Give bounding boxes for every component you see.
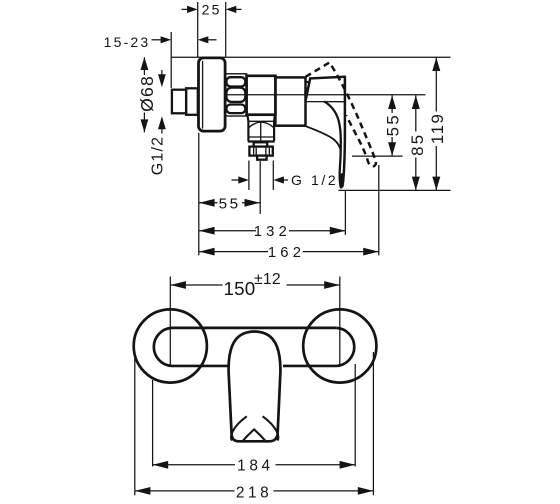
svg-text:Ø68: Ø68 bbox=[137, 75, 157, 112]
svg-text:85: 85 bbox=[408, 132, 427, 155]
svg-text:55: 55 bbox=[383, 113, 402, 136]
svg-text:15-23: 15-23 bbox=[104, 34, 151, 50]
svg-text:132: 132 bbox=[254, 224, 291, 240]
svg-text:119: 119 bbox=[428, 113, 447, 145]
svg-text:55: 55 bbox=[219, 195, 241, 212]
svg-text:25: 25 bbox=[202, 2, 222, 18]
svg-text:G 1/2: G 1/2 bbox=[291, 172, 338, 188]
svg-text:184: 184 bbox=[237, 457, 273, 474]
svg-text:162: 162 bbox=[268, 245, 305, 261]
svg-text:150: 150 bbox=[224, 278, 256, 299]
svg-text:G1/2: G1/2 bbox=[149, 136, 166, 176]
svg-text:±12: ±12 bbox=[254, 271, 281, 288]
svg-text:218: 218 bbox=[236, 484, 272, 501]
